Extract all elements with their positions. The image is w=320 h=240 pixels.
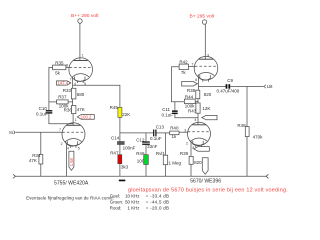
svg-text:R33: R33	[63, 88, 72, 93]
wire B+ to V4 anode	[204, 24, 206, 59]
callout 147.4	[57, 81, 71, 86]
svg-text:100.2: 100.2	[81, 115, 92, 120]
svg-text:Rvl1: Rvl1	[156, 151, 165, 156]
capacitor C14	[111, 135, 136, 150]
svg-text:R46: R46	[136, 151, 145, 156]
wire R45 to C14 with EQ bus	[119, 117, 121, 141]
svg-text:820: 820	[204, 92, 212, 97]
wire V3 cathode to R39	[190, 141, 192, 156]
svg-text:5: 5	[78, 146, 80, 150]
svg-text:= -33,4 dB: = -33,4 dB	[146, 193, 169, 198]
resistor R35	[53, 60, 66, 75]
legend yellow curve	[110, 193, 169, 198]
svg-text:5k: 5k	[55, 71, 61, 76]
svg-text:= -20,0 dB: = -20,0 dB	[146, 206, 169, 211]
capacitor C11	[162, 107, 178, 118]
svg-text:R43: R43	[188, 109, 197, 114]
wire to Rvl1	[165, 133, 167, 155]
svg-text:22K: 22K	[122, 112, 130, 117]
svg-text:R44: R44	[185, 95, 194, 100]
svg-text:Rood:: Rood:	[110, 206, 122, 211]
svg-text:100: 100	[137, 158, 145, 163]
ground rail	[13, 174, 269, 178]
triode V4 (5670 upper)	[194, 56, 218, 81]
svg-text:2: 2	[186, 142, 188, 146]
svg-text:C12: C12	[136, 137, 145, 142]
svg-text:680: 680	[77, 92, 85, 97]
resistor R37	[57, 95, 70, 109]
svg-text:33nF: 33nF	[147, 144, 158, 149]
legend green curve	[110, 200, 169, 205]
wire R44 to R38/R43 node	[195, 100, 198, 102]
terminal B++	[78, 19, 82, 23]
svg-text:1: 1	[82, 54, 84, 58]
node B+ supply label	[190, 14, 215, 20]
wire EQ bus to C12	[145, 133, 147, 142]
svg-text:R39: R39	[180, 151, 189, 156]
callout cathode V2 (red, vertical)	[69, 151, 74, 170]
svg-text:0.47uF/400: 0.47uF/400	[217, 89, 240, 94]
svg-text:C10: C10	[39, 106, 48, 111]
wire C14 to R47	[119, 145, 121, 155]
callout cathode V3	[194, 147, 210, 152]
resistor R47 (red)	[110, 151, 128, 170]
resistor R33	[63, 88, 85, 99]
terminal In	[9, 130, 14, 136]
svg-text:C11: C11	[162, 107, 170, 112]
wire R38 to R43	[197, 99, 199, 103]
svg-text:1k: 1k	[172, 134, 178, 139]
svg-text:R36: R36	[64, 107, 73, 112]
wire In node down to R34	[40, 132, 42, 154]
svg-text:2: 2	[61, 142, 63, 146]
callout 100.2	[77, 115, 94, 120]
wire R47 to ground rail	[119, 164, 121, 177]
callout heater V3 (vertical)	[202, 158, 208, 175]
svg-text:1 KHz: 1 KHz	[128, 206, 140, 211]
svg-text:R37: R37	[58, 95, 67, 100]
svg-text:R40: R40	[170, 126, 179, 131]
wire Rvl1 to ground rail	[165, 165, 167, 177]
wire R39 to ground rail	[190, 164, 192, 176]
wire output node to R48	[246, 86, 248, 126]
wire cathode node to R45	[73, 85, 120, 107]
resistor R39	[180, 151, 202, 165]
svg-text:Groen:: Groen:	[110, 200, 123, 205]
capacitor C12	[136, 137, 157, 149]
svg-text:1: 1	[75, 118, 77, 122]
resistor R44	[184, 95, 195, 109]
wire C9 to Uit	[230, 85, 264, 87]
capacitor C10	[36, 106, 52, 117]
terminal Uit	[265, 84, 273, 90]
svg-text:7k: 7k	[181, 70, 187, 75]
callout anode V3	[202, 115, 217, 119]
svg-text:7: 7	[59, 128, 61, 132]
svg-text:1.68: 1.68	[69, 157, 74, 166]
svg-text:6: 6	[195, 78, 197, 82]
svg-text:47K: 47K	[77, 107, 85, 112]
svg-text:7: 7	[191, 62, 193, 66]
resistor R45 (yellow)	[110, 105, 131, 117]
wire R37 to cathode chain	[68, 101, 73, 103]
svg-text:B+ 295 volt: B+ 295 volt	[190, 14, 215, 20]
svg-text:0.1uF: 0.1uF	[150, 136, 162, 141]
svg-text:147.4: 147.4	[58, 81, 69, 86]
wire R40 to V3 grid	[179, 131, 188, 133]
svg-text:Geel:: Geel:	[110, 193, 121, 198]
svg-text:3k3: 3k3	[121, 165, 129, 170]
wire V4 cathode to R38	[197, 76, 199, 91]
svg-text:R38: R38	[187, 88, 196, 93]
resistor R34	[29, 153, 43, 164]
wire R43 to V3 anode	[197, 113, 199, 125]
wire R48 to ground rail	[246, 137, 248, 177]
svg-text:B++ 290 volt: B++ 290 volt	[71, 13, 99, 19]
ground bar	[119, 180, 126, 182]
triode V1 (5755 section A)	[69, 58, 93, 83]
potentiometer Rvl1	[156, 151, 182, 166]
resistor R46 (green)	[136, 151, 148, 165]
svg-text:= -44,5 dB: = -44,5 dB	[146, 200, 169, 205]
svg-text:7: 7	[70, 77, 72, 81]
svg-text:C13: C13	[156, 125, 165, 130]
wire In to V2 grid	[15, 131, 62, 133]
svg-text:5755/ WE420A: 5755/ WE420A	[54, 181, 89, 187]
svg-text:R42: R42	[179, 59, 188, 64]
svg-text:C9: C9	[227, 78, 233, 83]
svg-text:3: 3	[184, 128, 186, 132]
wire EQ bus	[120, 132, 153, 134]
svg-text:R47: R47	[110, 151, 119, 156]
wire R34 to ground rail	[40, 164, 42, 176]
svg-text:R48: R48	[237, 123, 246, 128]
svg-text:R45: R45	[110, 105, 119, 110]
terminal B+	[202, 20, 206, 24]
wire R33 to R36	[72, 99, 74, 106]
callout cathode V4	[182, 82, 198, 87]
svg-text:9: 9	[207, 53, 209, 57]
svg-text:In: In	[9, 130, 13, 136]
wire C12 to R46	[145, 145, 147, 155]
resistor R40	[170, 126, 179, 139]
svg-text:6: 6	[66, 63, 68, 67]
node B++ supply label	[71, 13, 99, 19]
svg-text:Eventuele fijnafregeling van d: Eventuele fijnafregeling van de RIAA cur…	[26, 196, 114, 201]
svg-text:470k: 470k	[253, 134, 264, 139]
wire node A to C11	[174, 102, 176, 111]
svg-text:4: 4	[195, 118, 197, 122]
svg-text:50 KHz: 50 KHz	[125, 200, 139, 205]
wire V4 cathode output node to C9	[198, 85, 225, 87]
wire R46 to ground rail	[145, 165, 147, 177]
legend red curve	[110, 206, 169, 211]
wire R35 left down to feedback node	[49, 68, 53, 111]
wire feedback node to R37	[49, 101, 57, 103]
wire R35 to V1 grid	[66, 67, 70, 69]
wire V1 cathode down	[72, 77, 74, 89]
capacitor C13	[150, 125, 164, 142]
resistor R48	[237, 123, 263, 139]
svg-text:4: 4	[67, 146, 69, 150]
svg-text:100nF: 100nF	[123, 146, 136, 151]
wire R42 left down to node A	[172, 67, 185, 102]
wire R36 to V2 anode	[72, 114, 74, 126]
wire C11 to V3 anode node	[175, 114, 198, 118]
resistor R42	[179, 59, 188, 74]
svg-text:12K: 12K	[202, 106, 210, 111]
wire B++ to V1 anode	[79, 23, 81, 60]
triode V2 (5755 section B)	[62, 123, 85, 148]
wire C10 to V2 anode node	[49, 114, 73, 124]
resistor R38	[187, 88, 212, 99]
wire C13 to R40	[157, 132, 170, 134]
wire V2 cathode to ground rail	[65, 142, 66, 177]
svg-text:Uit: Uit	[267, 84, 274, 90]
svg-text:0.1uF: 0.1uF	[36, 112, 48, 117]
wire R42 to V4 grid	[188, 66, 194, 68]
triode V3 (5670 lower)	[188, 122, 211, 147]
svg-text:R35: R35	[55, 60, 64, 65]
svg-text:C14: C14	[111, 135, 120, 140]
svg-text:5670/ WE396: 5670/ WE396	[190, 179, 221, 185]
resistor R36	[64, 106, 85, 114]
svg-text:47K: 47K	[29, 158, 37, 163]
svg-text:1 Meg: 1 Meg	[169, 161, 182, 166]
capacitor C9	[217, 78, 240, 94]
svg-text:820: 820	[194, 160, 202, 165]
svg-text:0.1uF: 0.1uF	[162, 112, 174, 117]
resistor R43	[188, 103, 210, 114]
svg-text:10 KHz: 10 KHz	[125, 193, 139, 198]
